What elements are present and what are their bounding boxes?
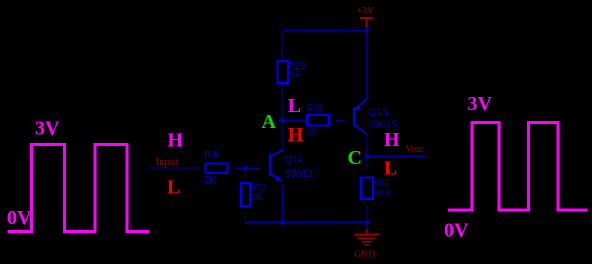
- wire node C to R31: [366, 156, 368, 170]
- wire R29 pin 2 to Q13 base pin: [336, 120, 343, 122]
- output waveform trace: [448, 122, 588, 210]
- svg-text:3V: 3V: [468, 93, 493, 115]
- svg-text:Q13: Q13: [368, 107, 388, 119]
- wire Vout net: [367, 155, 427, 157]
- resistor R30 2K: [205, 163, 227, 173]
- transistor Q13 S9015: [354, 99, 367, 135]
- wire R30 pin 2 to Q14 base: [234, 167, 258, 169]
- svg-text:Input: Input: [156, 157, 179, 168]
- resistor R28 2K: [278, 61, 288, 83]
- svg-text:H: H: [168, 129, 184, 151]
- wire +3V node to Q13 emitter: [366, 31, 368, 100]
- resistor R31 3K3: [361, 178, 373, 199]
- wire Q14 emitter to ground rail: [282, 186, 284, 222]
- svg-text:3V: 3V: [35, 118, 60, 140]
- wire R31 to ground node: [366, 205, 368, 222]
- wire Q13 collector to node C: [366, 134, 368, 157]
- svg-text:Q14: Q14: [285, 154, 303, 166]
- svg-text:GND: GND: [354, 250, 375, 261]
- svg-text:H: H: [384, 129, 400, 151]
- resistor R29 2K: [307, 115, 329, 126]
- svg-text:C: C: [348, 147, 362, 169]
- svg-text:3K3: 3K3: [374, 187, 390, 199]
- svg-text:0V: 0V: [444, 220, 469, 242]
- svg-text:+3V: +3V: [357, 6, 376, 17]
- svg-text:Vout: Vout: [406, 144, 424, 155]
- junction node A: [279, 117, 286, 124]
- wire +3V rail top: [282, 30, 367, 32]
- svg-text:0V: 0V: [7, 207, 32, 229]
- wire ground stub: [366, 224, 368, 230]
- wire +3V rail to R28: [281, 31, 283, 62]
- svg-text:2K: 2K: [306, 127, 319, 139]
- wire R28 to node A and Q14 collector: [281, 83, 283, 150]
- wire base node to R32: [244, 168, 246, 177]
- resistor R32 2K: [241, 183, 250, 206]
- svg-text:R30: R30: [204, 149, 221, 161]
- svg-text:H: H: [288, 124, 304, 146]
- svg-text:2K: 2K: [289, 69, 302, 81]
- transistor Q14 S9013: [270, 150, 283, 181]
- svg-text:S9013: S9013: [284, 168, 313, 180]
- junction ground node: [363, 219, 370, 226]
- wire ground rail: [245, 221, 367, 223]
- wire Input net: [149, 167, 200, 169]
- input waveform trace: [8, 145, 150, 232]
- ground GND: [354, 229, 379, 245]
- junction Q14 emitter rail: [279, 219, 286, 226]
- svg-text:2K: 2K: [250, 191, 263, 203]
- svg-text:R29: R29: [307, 102, 323, 114]
- wire node A to R29 pin 1: [282, 120, 307, 122]
- junction base node: [242, 165, 249, 172]
- svg-text:L: L: [167, 177, 180, 199]
- wire R32 bottom to ground rail: [245, 213, 282, 223]
- svg-text:2K: 2K: [204, 174, 217, 186]
- svg-text:L: L: [288, 95, 301, 117]
- svg-text:A: A: [262, 111, 277, 133]
- junction +3V node: [363, 27, 370, 34]
- junction node C: [363, 153, 370, 160]
